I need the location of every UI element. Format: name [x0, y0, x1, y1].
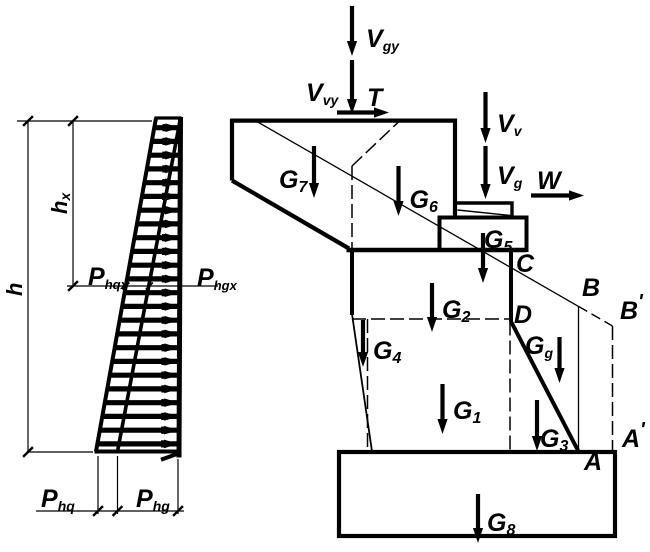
level line Phqx / Phgx at depth hx: [67, 285, 218, 287]
pressure diagram left edge: [96, 118, 156, 452]
arrowheads of pressure arrows: [161, 123, 180, 448]
force arrow W: [531, 190, 584, 200]
extension line below right edge: [177, 459, 179, 514]
extension line below inner boundary: [117, 456, 119, 514]
dashed vertical B-prime to A-prime: [612, 326, 614, 452]
svg-text:A: A: [621, 425, 640, 453]
tick Phg right: [173, 506, 183, 516]
svg-text:B: B: [582, 274, 600, 302]
force arrow G2: [427, 283, 437, 332]
hatching of pressure diagram: horizontal load arrows: [97, 128, 180, 444]
svg-text:B: B: [620, 297, 638, 325]
force arrow G1: [437, 384, 447, 434]
force arrow G4: [358, 320, 368, 367]
thick slope line D to A: [511, 322, 579, 452]
crest block outline: [232, 121, 455, 217]
small hatch block on downstream face: [457, 203, 512, 216]
tick Phq left: [93, 506, 103, 516]
pressure diagram inner boundary (Phq / Phg split): [118, 118, 181, 452]
pressure diagram right edge (wall face): [179, 117, 181, 458]
thin diagonal inside small block: [458, 210, 511, 216]
long thin diagonal from crest to B: [256, 121, 579, 306]
svg-text:A: A: [583, 448, 602, 476]
dimension line h (vertical): [27, 121, 29, 452]
force arrow G5: [478, 233, 488, 283]
force arrow Vv: [480, 92, 490, 143]
horizontal ledge line below crest and block G5: [347, 248, 527, 253]
force arrow Gg: [554, 337, 564, 383]
tick where level line crosses inner line: [146, 283, 153, 290]
pressure diagram top edge: [155, 116, 182, 119]
dimension line hx (vertical): [72, 121, 74, 286]
force arrow Vgy: [347, 6, 357, 56]
slanted tail at bottom of wall face line: [161, 453, 181, 460]
tick top of hx dimension: [68, 116, 78, 126]
dashed vertical below D: [509, 322, 511, 452]
extension line below bottom left corner: [97, 456, 99, 514]
force arrow G7: [309, 146, 319, 198]
tick bottom of h dimension: [23, 447, 33, 457]
bottom extension line to pressure diagram: [28, 451, 93, 453]
middle body left slanted thin edge: [352, 314, 372, 452]
svg-text:C: C: [516, 250, 535, 278]
tick Phq/Phg split: [113, 506, 123, 516]
force arrow G8: [473, 494, 483, 543]
tick top of h dimension: [23, 116, 33, 126]
dashed diagonal B to B-prime: [579, 306, 613, 326]
force arrow G3: [532, 400, 542, 451]
crest lower-left slanted edge: [232, 181, 349, 249]
tick where level line crosses left edge: [122, 283, 129, 290]
pressure diagram bottom edge: [95, 450, 181, 454]
svg-text:D: D: [514, 301, 532, 329]
tick bottom of hx dimension: [68, 281, 78, 291]
force arrow Vvy: [347, 60, 357, 114]
thin vertical line B to A: [578, 306, 580, 451]
force arrow Vg: [480, 146, 490, 199]
middle body left edge: [350, 250, 354, 315]
force arrow T: [337, 107, 389, 117]
force arrow G6: [393, 166, 403, 216]
top extension line of pressure diagram: [17, 120, 152, 122]
middle body right edge (C to D): [509, 250, 513, 322]
dashed slant inside crest: [352, 122, 399, 167]
dashed vertical left inside middle body: [367, 319, 369, 452]
svg-text:h: h: [2, 283, 27, 296]
dashed horizontal through middle body at D level: [352, 318, 511, 320]
bottom dimension line Phq / Phg: [36, 510, 184, 512]
svg-text:W: W: [537, 167, 563, 195]
block G5 rectangle: [440, 218, 527, 251]
base slab rectangle: [339, 452, 615, 536]
dashed vertical inside crest: [351, 166, 353, 248]
